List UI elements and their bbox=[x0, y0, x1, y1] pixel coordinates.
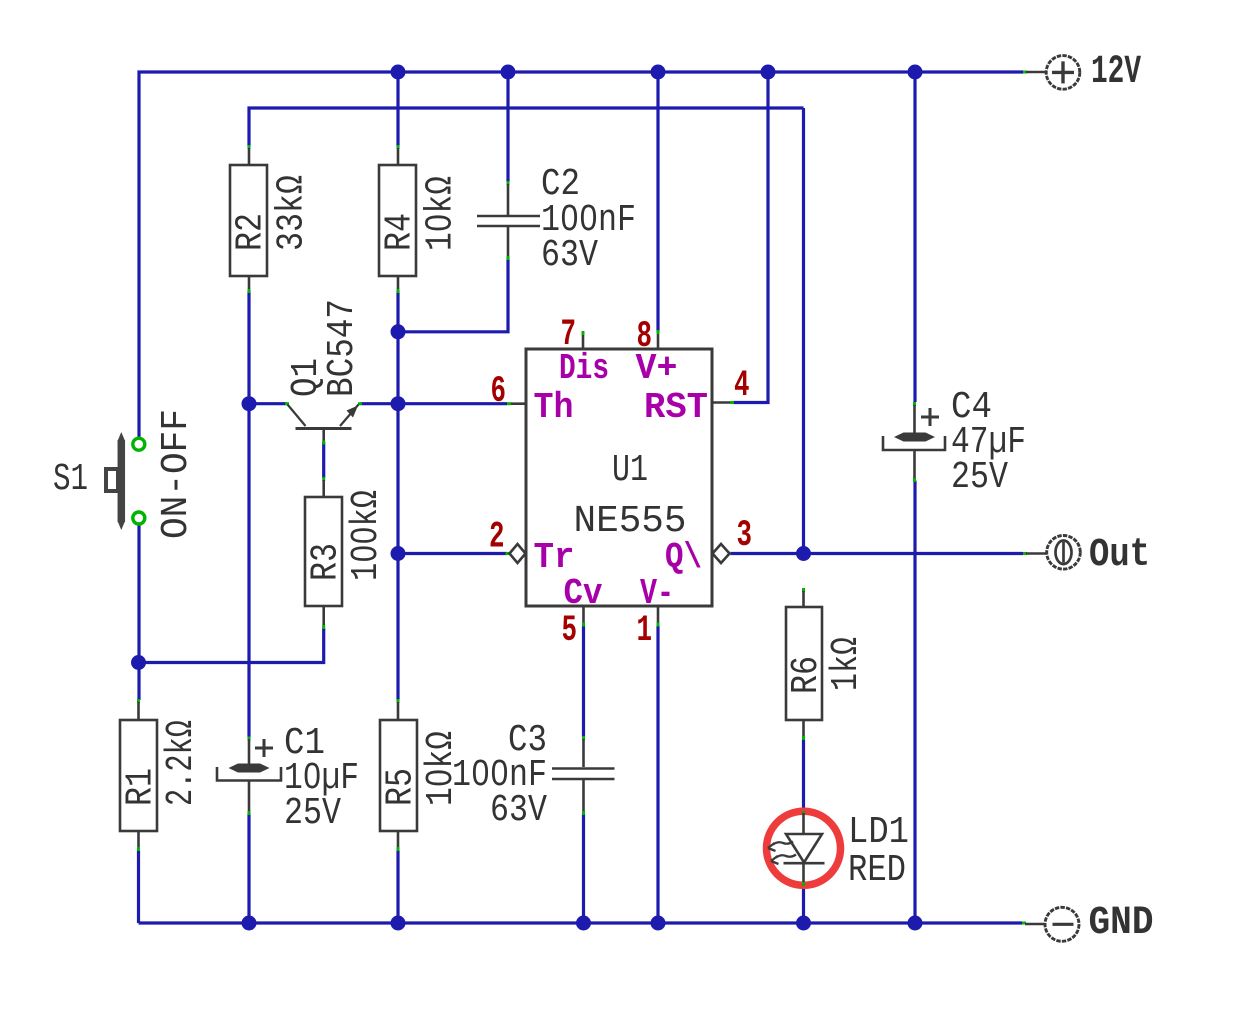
LED LD1 bbox=[767, 811, 910, 892]
svg-text:2: 2 bbox=[489, 517, 505, 559]
pin 4 RST bbox=[644, 365, 750, 428]
capacitor C1 electrolytic bbox=[217, 722, 359, 835]
svg-text:10kΩ: 10kΩ bbox=[420, 176, 463, 251]
node junction Th bbox=[391, 396, 406, 411]
resistor R6 bbox=[785, 588, 868, 740]
svg-text:Cv: Cv bbox=[564, 573, 603, 614]
wire C3 bottom to rail bbox=[582, 814, 585, 923]
wire collector node to Q1 bbox=[249, 402, 287, 405]
svg-text:12V: 12V bbox=[1091, 50, 1141, 95]
svg-text:R1: R1 bbox=[120, 768, 163, 806]
node junction top rail RST bbox=[761, 65, 776, 80]
node junction top rail pin8 bbox=[651, 65, 666, 80]
svg-text:R5: R5 bbox=[380, 768, 423, 806]
wire S1 bottom to R1 bbox=[137, 526, 140, 701]
pin 2 Tr bbox=[489, 517, 575, 579]
wire R6 bottom to LED bbox=[802, 739, 805, 812]
wire pin 5 to C3 bbox=[582, 626, 585, 737]
svg-text:GND: GND bbox=[1089, 901, 1154, 946]
node junction C2 bottom bbox=[391, 324, 406, 339]
resistor R4 bbox=[379, 145, 463, 293]
svg-text:V-: V- bbox=[640, 573, 674, 614]
svg-text:ON-OFF: ON-OFF bbox=[155, 409, 198, 539]
wire bottom GND rail bbox=[139, 921, 1023, 924]
terminal GND bbox=[1022, 901, 1154, 946]
svg-text:Dis: Dis bbox=[559, 348, 609, 389]
wire Q1 emitter to Th node bbox=[361, 402, 399, 405]
wire C4 bottom bbox=[913, 481, 916, 924]
wire R3 bottom to node bbox=[139, 628, 324, 663]
wire RST riser bbox=[733, 72, 768, 403]
wire pin 2 Tr bbox=[398, 552, 507, 555]
svg-text:4: 4 bbox=[734, 365, 750, 407]
svg-text:RST: RST bbox=[644, 387, 708, 428]
wire pin 1 to rail bbox=[656, 626, 659, 923]
capacitor C4 electrolytic bbox=[883, 386, 1026, 499]
node junction top rail C2 bbox=[501, 65, 516, 80]
node junction rail LED bbox=[796, 916, 811, 931]
svg-text:63V: 63V bbox=[541, 234, 598, 277]
wire C2 bottom to node bbox=[398, 259, 508, 332]
node junction top rail C4 bbox=[908, 65, 923, 80]
svg-text:63V: 63V bbox=[490, 789, 547, 832]
svg-text:R3: R3 bbox=[305, 543, 348, 581]
node junction collector bbox=[242, 396, 257, 411]
wire x803 riser to Q out bbox=[802, 108, 805, 554]
capacitor C3 bbox=[452, 719, 615, 832]
op-amp U1 NE555 box bbox=[526, 349, 712, 606]
wire collector node to C1 bbox=[247, 404, 250, 738]
svg-text:U1: U1 bbox=[612, 449, 648, 492]
svg-text:25V: 25V bbox=[284, 792, 341, 835]
svg-text:S1: S1 bbox=[53, 458, 88, 501]
wire pin 3 Q to Out bbox=[730, 552, 1024, 555]
resistor R3 bbox=[305, 477, 388, 629]
svg-text:LD1: LD1 bbox=[848, 811, 909, 854]
wire C4 top bbox=[913, 72, 916, 402]
svg-text:V+: V+ bbox=[636, 348, 678, 389]
svg-text:R6: R6 bbox=[785, 656, 828, 694]
wire Th node to pin 6 bbox=[398, 402, 507, 405]
node junction Q out R6 bbox=[796, 546, 811, 561]
svg-text:6: 6 bbox=[491, 371, 507, 413]
svg-text:2.2kΩ: 2.2kΩ bbox=[160, 720, 203, 806]
node junction rail C1 bbox=[242, 916, 257, 931]
wire R4 top bbox=[396, 72, 399, 147]
svg-text:1: 1 bbox=[637, 610, 653, 652]
wire Q1 base bbox=[322, 442, 325, 478]
svg-text:Tr: Tr bbox=[534, 537, 575, 578]
wire pin 8 riser bbox=[656, 72, 659, 332]
wire C2 top bbox=[506, 72, 509, 182]
wire top rail +12V bbox=[139, 72, 1023, 437]
svg-text:R4: R4 bbox=[379, 213, 422, 251]
svg-text:Q\: Q\ bbox=[665, 537, 702, 578]
wire R4 bottom through nodes to R5 bbox=[396, 291, 399, 700]
capacitor C2 bbox=[477, 163, 636, 277]
node junction rail R5 bbox=[391, 916, 406, 931]
terminal Out bbox=[1023, 533, 1150, 578]
svg-text:Out: Out bbox=[1089, 533, 1150, 578]
wire R1 bottom to GND rail bbox=[137, 850, 140, 923]
svg-text:25V: 25V bbox=[951, 456, 1008, 499]
wire C1 bottom to rail bbox=[247, 814, 250, 924]
node junction Tr bbox=[391, 546, 406, 561]
node junction top rail R4 bbox=[391, 65, 406, 80]
transistor Q1 bbox=[285, 299, 364, 445]
svg-text:3: 3 bbox=[737, 515, 753, 557]
pin 8 V+ bbox=[636, 316, 678, 389]
node junction rail pin1 bbox=[651, 916, 666, 931]
svg-text:1kΩ: 1kΩ bbox=[825, 637, 868, 691]
node junction rail C4 bbox=[908, 916, 923, 931]
wire R5 bottom to rail bbox=[396, 850, 399, 923]
svg-text:33kΩ: 33kΩ bbox=[271, 175, 314, 251]
resistor R2 bbox=[230, 145, 314, 293]
pin 6 Th bbox=[491, 371, 574, 428]
switch S1 bbox=[53, 409, 198, 539]
pin 7 Dis bbox=[559, 314, 609, 389]
node junction rail C3 bbox=[576, 916, 591, 931]
pin 1 V- bbox=[637, 573, 675, 652]
node junction R3 R1 bbox=[131, 655, 146, 670]
wire LED to rail bbox=[802, 885, 805, 923]
svg-text:BC547: BC547 bbox=[321, 299, 364, 397]
svg-text:R2: R2 bbox=[230, 213, 273, 251]
resistor R5 bbox=[380, 699, 464, 851]
svg-text:5: 5 bbox=[562, 610, 578, 652]
pin 3 Q bbox=[665, 515, 752, 578]
terminal 12V bbox=[1023, 50, 1141, 95]
resistor R1 bbox=[120, 699, 204, 851]
svg-text:RED: RED bbox=[848, 849, 906, 892]
svg-text:Th: Th bbox=[534, 387, 574, 428]
wire second top rail bbox=[249, 108, 804, 147]
pin 5 Cv bbox=[562, 573, 603, 652]
wire R2 bottom to collector node bbox=[247, 291, 250, 404]
